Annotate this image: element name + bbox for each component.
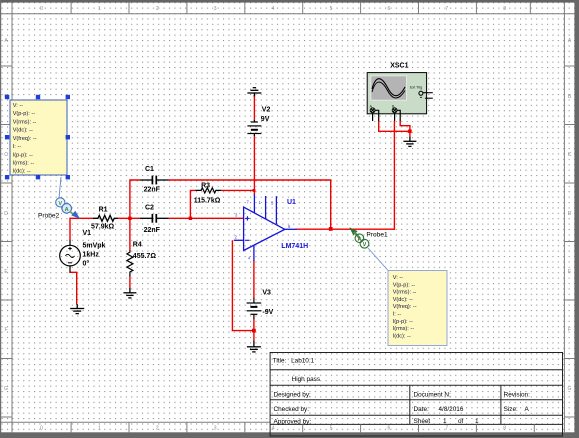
- svg-text:7: 7: [445, 426, 448, 432]
- svg-text:Approved by:: Approved by:: [274, 418, 312, 425]
- svg-text:I: --: I: --: [13, 144, 22, 150]
- svg-text:F: F: [4, 327, 7, 333]
- svg-text:I(rms): --: I(rms): --: [393, 326, 415, 332]
- svg-text:2: 2: [156, 426, 159, 432]
- svg-text:R4: R4: [133, 242, 142, 249]
- svg-text:R1: R1: [99, 206, 108, 213]
- svg-text:Title:: Title:: [273, 357, 287, 364]
- svg-text:V: --: V: --: [13, 103, 23, 109]
- svg-text:Designed by:: Designed by:: [274, 391, 312, 398]
- svg-text:I(dc): --: I(dc): --: [393, 333, 411, 339]
- svg-text:V: V: [58, 201, 62, 207]
- svg-text:I(p-p): --: I(p-p): --: [393, 319, 413, 325]
- svg-text:V2: V2: [262, 107, 271, 114]
- svg-text:V(rms): --: V(rms): --: [13, 119, 37, 125]
- svg-text:2: 2: [156, 6, 159, 12]
- svg-text:6: 6: [388, 426, 391, 432]
- svg-text:57.9kΩ: 57.9kΩ: [91, 224, 115, 231]
- svg-text:Probe2: Probe2: [38, 213, 60, 220]
- svg-text:0: 0: [40, 426, 43, 432]
- svg-text:1kHz: 1kHz: [83, 252, 100, 259]
- svg-text:G: G: [4, 386, 8, 392]
- svg-text:5: 5: [330, 426, 333, 432]
- svg-text:I(dc): --: I(dc): --: [13, 169, 31, 175]
- svg-text:High pass: High pass: [292, 376, 320, 383]
- svg-text:4: 4: [272, 6, 275, 12]
- svg-text:A: A: [525, 406, 530, 413]
- svg-text:1: 1: [98, 6, 101, 12]
- svg-text:1: 1: [98, 426, 101, 432]
- svg-text:C: C: [568, 152, 572, 158]
- svg-text:V: V: [363, 242, 367, 248]
- svg-text:4/8/2016: 4/8/2016: [439, 406, 464, 413]
- svg-text:Sheet: Sheet: [414, 418, 431, 425]
- svg-text:9V: 9V: [261, 116, 270, 123]
- svg-text:C: C: [4, 152, 8, 158]
- svg-text:Ext Trig: Ext Trig: [410, 86, 422, 90]
- svg-text:V(p-p): --: V(p-p): --: [13, 111, 36, 117]
- svg-text:I(rms): --: I(rms): --: [13, 161, 35, 167]
- svg-text:D: D: [568, 211, 572, 217]
- svg-text:V(dc): --: V(dc): --: [393, 297, 413, 303]
- svg-text:22nF: 22nF: [144, 227, 161, 234]
- svg-text:4: 4: [272, 426, 275, 432]
- svg-text:V(freq): --: V(freq): --: [393, 304, 417, 310]
- svg-text:XSC1: XSC1: [390, 63, 408, 70]
- svg-text:22nF: 22nF: [144, 186, 161, 193]
- svg-text:A: A: [357, 237, 361, 243]
- svg-text:Revision:: Revision:: [504, 391, 531, 398]
- svg-text:5mVpk: 5mVpk: [83, 242, 106, 249]
- svg-text:V: --: V: --: [393, 275, 403, 281]
- svg-text:115.7kΩ: 115.7kΩ: [194, 198, 221, 205]
- svg-text:-9V: -9V: [262, 309, 273, 316]
- svg-text:Checked by:: Checked by:: [274, 406, 310, 413]
- svg-text:G: G: [568, 386, 572, 392]
- svg-text:3: 3: [214, 6, 217, 12]
- svg-text:Lab10.1: Lab10.1: [291, 357, 315, 364]
- svg-text:5: 5: [330, 6, 333, 12]
- svg-text:D: D: [4, 211, 8, 217]
- svg-text:I(p-p): --: I(p-p): --: [13, 152, 33, 158]
- svg-text:V1: V1: [83, 230, 92, 237]
- svg-text:F: F: [568, 327, 571, 333]
- svg-text:Document N:: Document N:: [414, 391, 452, 398]
- svg-text:Probe1: Probe1: [366, 231, 388, 238]
- svg-text:8: 8: [503, 6, 506, 12]
- svg-text:455.7Ω: 455.7Ω: [133, 253, 157, 260]
- svg-text:of: of: [458, 418, 464, 425]
- svg-text:C2: C2: [145, 205, 154, 212]
- svg-text:8: 8: [503, 426, 506, 432]
- svg-text:Size:: Size:: [504, 406, 518, 413]
- svg-text:0: 0: [40, 6, 43, 12]
- svg-text:V3: V3: [262, 289, 271, 296]
- svg-text:0°: 0°: [83, 259, 90, 267]
- svg-text:6: 6: [388, 6, 391, 12]
- svg-text:1: 1: [475, 418, 479, 425]
- svg-text:C1: C1: [145, 166, 154, 173]
- svg-text:I: --: I: --: [393, 312, 402, 318]
- svg-text:Date:: Date:: [414, 406, 429, 413]
- svg-text:A: A: [65, 207, 69, 213]
- svg-text:V(p-p): --: V(p-p): --: [393, 282, 416, 288]
- svg-text:V(freq): --: V(freq): --: [13, 136, 37, 142]
- svg-text:3: 3: [214, 426, 217, 432]
- svg-text:V(dc): --: V(dc): --: [13, 128, 33, 134]
- svg-text:7: 7: [445, 6, 448, 12]
- svg-text:LM741H: LM741H: [281, 243, 308, 250]
- svg-text:R3: R3: [201, 183, 210, 190]
- svg-text:V(rms): --: V(rms): --: [393, 290, 417, 296]
- svg-text:U1: U1: [287, 199, 296, 206]
- svg-text:1: 1: [443, 418, 447, 425]
